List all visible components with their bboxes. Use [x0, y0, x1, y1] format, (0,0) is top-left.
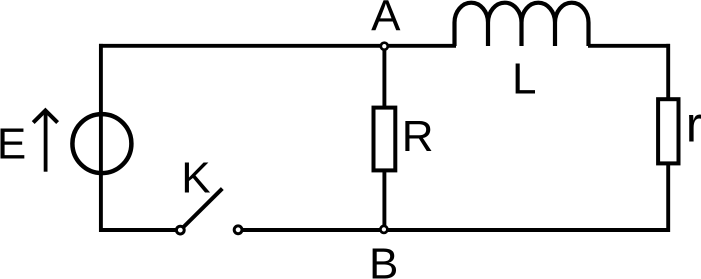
svg-text:R: R [402, 112, 434, 161]
wire left vertical [99, 44, 103, 232]
node B [380, 226, 387, 233]
wire middle vertical lower (resistor R to node B) [382, 170, 386, 229]
resistor R [374, 108, 396, 171]
voltage source E (circle) [72, 114, 131, 173]
switch K right terminal [234, 226, 242, 234]
svg-text:A: A [371, 0, 401, 41]
svg-text:B: B [369, 240, 398, 279]
svg-text:E: E [0, 120, 26, 169]
wire bottom-left segment (left corner to switch terminal) [99, 228, 176, 232]
resistor r [658, 99, 678, 163]
wire bottom-right segment (switch terminal to right corner) [243, 228, 671, 232]
node A [381, 43, 388, 50]
svg-text:r: r [686, 96, 701, 152]
arrow for source E [33, 110, 57, 171]
wire top-left segment (left corner to inductor) [99, 44, 456, 48]
svg-text:K: K [181, 154, 210, 203]
wire top-right segment (inductor to right corner) [588, 44, 670, 48]
switch K lever [184, 189, 223, 227]
switch K left terminal [176, 226, 184, 234]
wire right vertical lower (resistor r to bottom corner) [666, 163, 670, 232]
wire right vertical upper (corner to resistor r) [666, 44, 670, 100]
svg-text:L: L [512, 54, 536, 103]
wire middle vertical upper (node A to resistor R) [382, 46, 386, 108]
inductor L [455, 3, 589, 46]
